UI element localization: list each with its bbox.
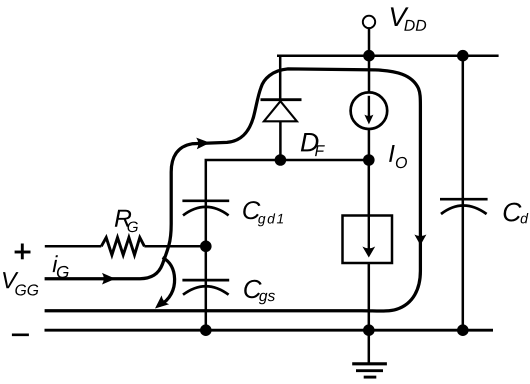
node junction Cd bottom: [457, 324, 469, 336]
wire gate to Cgs: [205, 246, 208, 286]
wire node to box: [368, 160, 371, 216]
wire top rail VDD: [277, 54, 499, 57]
wire diode branch upper: [279, 56, 282, 100]
label Cgs: [244, 280, 275, 304]
node junction at VDD rail: [363, 50, 375, 62]
wire Cgs to bottom rail: [205, 286, 208, 330]
wire horizontal node at y160: [206, 160, 369, 207]
wire RG left: [45, 245, 102, 248]
node junction Cgs bottom: [200, 324, 212, 336]
current loop arrow iG: [102, 273, 116, 285]
label VGG: [3, 272, 38, 295]
current loop hook arrow: [151, 295, 169, 313]
node junction IO output: [363, 154, 375, 166]
label RG: [115, 210, 138, 232]
label Cgd1: [243, 201, 283, 226]
diode DF: [261, 100, 302, 122]
current source IO: [351, 92, 388, 129]
ground: [352, 330, 387, 377]
wire bottom rail: [45, 329, 494, 332]
label iG: [53, 255, 69, 278]
wire RG right to gate: [144, 245, 205, 248]
label Cd: [504, 203, 529, 224]
wire Cd branch lower: [462, 205, 465, 330]
capacitor Cd: [440, 199, 488, 214]
current source IO branch wire upper: [368, 56, 371, 94]
capacitor Cgs: [182, 280, 229, 295]
current loop arrow mid: [196, 137, 210, 149]
capacitor Cgd1: [182, 201, 229, 216]
wire Cgd1 to gate node: [205, 207, 208, 246]
current loop arrow down: [414, 235, 426, 246]
current loop hook branch: [160, 258, 175, 306]
transistor channel box: [343, 216, 393, 264]
node junction diode anode: [275, 154, 287, 166]
wire box to bottom rail: [368, 263, 371, 330]
label VDD: [391, 7, 426, 30]
label IO: [389, 145, 407, 168]
node junction gate: [200, 241, 212, 253]
node junction at top of Cd branch: [457, 50, 469, 62]
wire current source to node: [368, 128, 371, 160]
wire diode branch lower: [279, 121, 282, 160]
label minus: [12, 333, 29, 336]
wire Cd branch upper: [462, 56, 465, 206]
node junction ground: [363, 324, 375, 336]
label plus: [15, 244, 31, 260]
resistor RG: [101, 238, 144, 256]
label DF: [301, 133, 325, 156]
terminal VDD: [363, 16, 375, 56]
current loop path: [45, 69, 421, 311]
